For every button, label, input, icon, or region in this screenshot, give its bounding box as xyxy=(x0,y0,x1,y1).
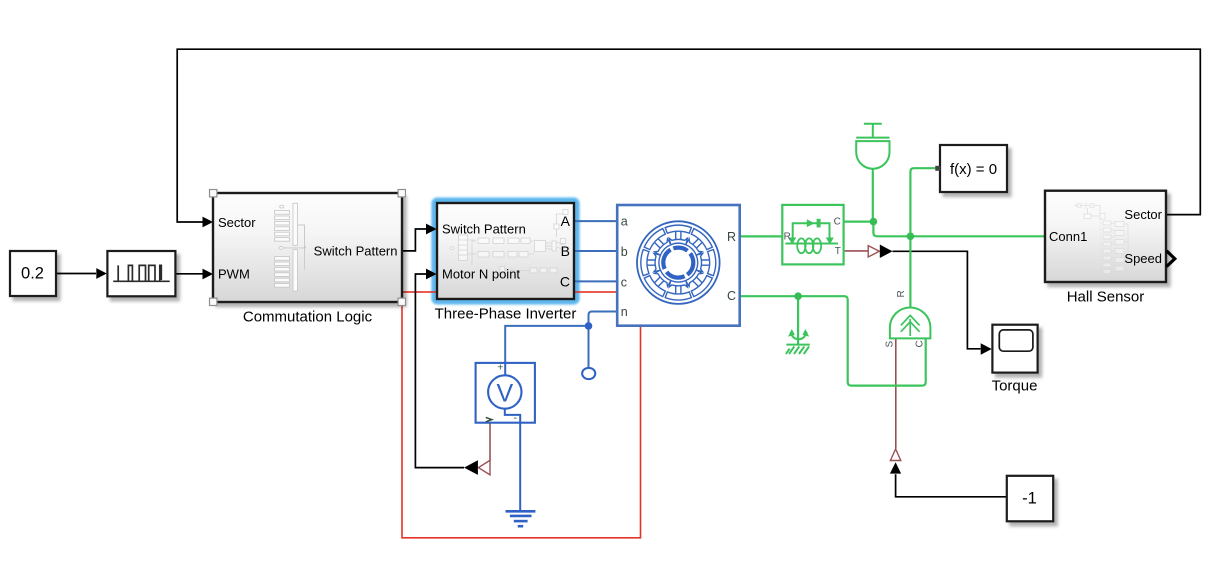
svg-text:V: V xyxy=(496,380,513,408)
Commutation Logic selection handles xyxy=(210,190,406,306)
svg-text:C: C xyxy=(834,216,841,227)
blue wire: voltage sensor minus down to electrical reference xyxy=(505,409,520,512)
svg-text:Hall Sensor: Hall Sensor xyxy=(1067,288,1145,305)
svg-text:n: n xyxy=(621,305,628,319)
converter icon arrows and plate xyxy=(788,219,834,245)
svg-text:-: - xyxy=(514,412,518,424)
solver configuration block f(x)=0 xyxy=(935,145,1007,192)
svg-text:Commutation Logic: Commutation Logic xyxy=(243,309,373,326)
svg-text:+: + xyxy=(497,362,503,374)
svg-text:Switch Pattern: Switch Pattern xyxy=(442,222,526,237)
physical signal wire: T port to PS-Simulink converter xyxy=(844,250,869,252)
wire: Motor N point feed (from PS-Simulink converter up into inverter) xyxy=(415,274,464,468)
svg-text:Three-Phase Inverter: Three-Phase Inverter xyxy=(435,305,577,322)
Torque scope block xyxy=(992,325,1038,395)
constant block -1 xyxy=(1007,476,1053,522)
Hall Sensor inner preview image xyxy=(1074,203,1128,274)
svg-text:-1: -1 xyxy=(1022,489,1037,507)
svg-text:Speed: Speed xyxy=(1124,251,1162,266)
svg-text:Motor N point: Motor N point xyxy=(442,266,520,281)
svg-text:a: a xyxy=(621,215,628,229)
svg-text:A: A xyxy=(561,213,571,229)
svg-text:C: C xyxy=(560,273,570,289)
annotation red boundary rectangle xyxy=(402,292,641,538)
svg-text:f(x) = 0: f(x) = 0 xyxy=(950,161,997,178)
svg-text:Sector: Sector xyxy=(218,215,256,230)
PS-Simulink converter (voltage sensor path, pointing left) xyxy=(464,460,490,475)
svg-text:T: T xyxy=(835,246,841,257)
arrowhead into Motor N point port xyxy=(426,269,437,280)
Hall Sensor subsystem block xyxy=(1045,191,1166,282)
wire: Sector feedback (Hall Sensor Sector output to Commutation Logic Sector input) xyxy=(177,49,1200,222)
blue wire: inverter A to motor a xyxy=(574,220,617,222)
green junction dot at motor C node xyxy=(794,292,802,300)
svg-text:0.2: 0.2 xyxy=(21,265,44,283)
green conserving wire: junction to Hall Conn1 xyxy=(873,222,1045,237)
svg-text:C: C xyxy=(727,289,736,303)
BLDC motor port labels xyxy=(621,215,736,319)
Three-Phase Inverter selection glow xyxy=(434,200,577,301)
Three-Phase Inverter port labels xyxy=(442,222,526,282)
R C T port labels xyxy=(784,216,841,257)
svg-text:c: c xyxy=(621,276,627,290)
wire: -1 constant to Simulink-PS converter xyxy=(896,474,1007,497)
mechanical rotational reference symbol xyxy=(786,332,810,354)
green conserving wire: branch up to Solver Configuration f(x)=0 xyxy=(910,168,935,236)
ideal torque source (dome) xyxy=(890,307,931,338)
svg-text:Conn1: Conn1 xyxy=(1049,229,1087,244)
inertia block (bell) xyxy=(856,124,889,169)
constant block 0.2 xyxy=(10,251,56,296)
svg-text:Switch Pattern: Switch Pattern xyxy=(314,243,398,258)
wire: 0.2 constant to Pulse Generator xyxy=(56,273,96,275)
PS-Simulink converter (torque path, pointing right) xyxy=(868,245,892,259)
physical signal wire: Simulink-PS converter up to torque source S port xyxy=(895,338,897,448)
voltage sensor ps output chevron xyxy=(486,417,492,421)
BLDC motor stator/rotor icon xyxy=(637,221,720,304)
Simulink-PS converter (to torque source S, pointing up) xyxy=(890,449,901,474)
svg-text:R: R xyxy=(896,290,907,297)
arrowhead into PWM port xyxy=(203,269,214,280)
green conserving wire: block C port to junction xyxy=(844,221,874,223)
green conserving wire: motor C to reference junction then around to torque source C xyxy=(739,296,926,385)
blue wire: motor n to junction xyxy=(589,312,618,326)
arrowhead into Torque scope xyxy=(981,343,992,355)
Commutation Logic subsystem block xyxy=(213,193,402,302)
svg-text:R: R xyxy=(784,231,791,242)
blue wire: inverter C to motor c xyxy=(574,280,617,282)
green junction dot at bell/C-port node xyxy=(870,218,878,226)
Hall Sensor port labels xyxy=(1049,207,1163,266)
blue wire: junction down to open terminator circle xyxy=(588,326,590,367)
svg-text:b: b xyxy=(621,245,628,259)
green junction dot at Conn1 line node xyxy=(907,233,915,241)
arrowhead into inverter Switch Pattern port xyxy=(426,224,437,235)
open circuit terminator circle xyxy=(582,368,595,379)
svg-text:Sector: Sector xyxy=(1124,207,1162,222)
arrowhead into Sector port xyxy=(203,217,214,228)
Hall Sensor unconnected Speed output chevron xyxy=(1167,251,1175,267)
voltage sensor port marks xyxy=(497,362,517,425)
blue wire: junction to voltage sensor plus xyxy=(505,326,588,363)
wire: torque signal (PS-Simulink converter to Torque scope) xyxy=(893,251,981,348)
svg-text:S: S xyxy=(885,341,896,348)
Commutation Logic port labels xyxy=(218,215,398,282)
svg-text:Torque: Torque xyxy=(992,377,1038,394)
blue junction dot on n net xyxy=(585,322,593,330)
physical signal wire: voltage sensor output down to converter xyxy=(489,424,491,461)
svg-text:R: R xyxy=(727,230,736,244)
svg-text:PWM: PWM xyxy=(218,267,250,282)
pulse generator block xyxy=(107,251,175,296)
svg-text:B: B xyxy=(561,243,570,259)
Three-Phase Inverter block body xyxy=(437,203,574,299)
green conserving wire: motor R to block R port xyxy=(739,235,783,237)
rotational electromechanical converter block (R C T) xyxy=(782,205,843,265)
green conserving wire: branch down to torque source R xyxy=(909,236,911,307)
torque source port labels (rotated) xyxy=(885,290,926,347)
rotational reference arc arrowheads xyxy=(788,329,795,337)
svg-text:C: C xyxy=(914,340,925,347)
arrowhead into Pulse Generator xyxy=(96,268,107,279)
blue wire: inverter B to motor b xyxy=(574,250,617,252)
green conserving wire: junction down to rotational reference xyxy=(797,296,799,344)
wire: Switch Pattern (Commutation Logic out to Three-Phase Inverter in) xyxy=(402,229,427,251)
green conserving wire: inertia bell stem down to junction xyxy=(872,168,874,221)
BLDC motor block xyxy=(617,205,740,326)
electrical reference ground bars xyxy=(506,511,536,526)
voltage sensor block xyxy=(476,363,535,423)
wire: Pulse Generator to PWM input xyxy=(176,273,204,275)
Three-Phase Inverter inner preview image xyxy=(450,210,568,274)
Commutation Logic inner preview image xyxy=(275,203,307,291)
